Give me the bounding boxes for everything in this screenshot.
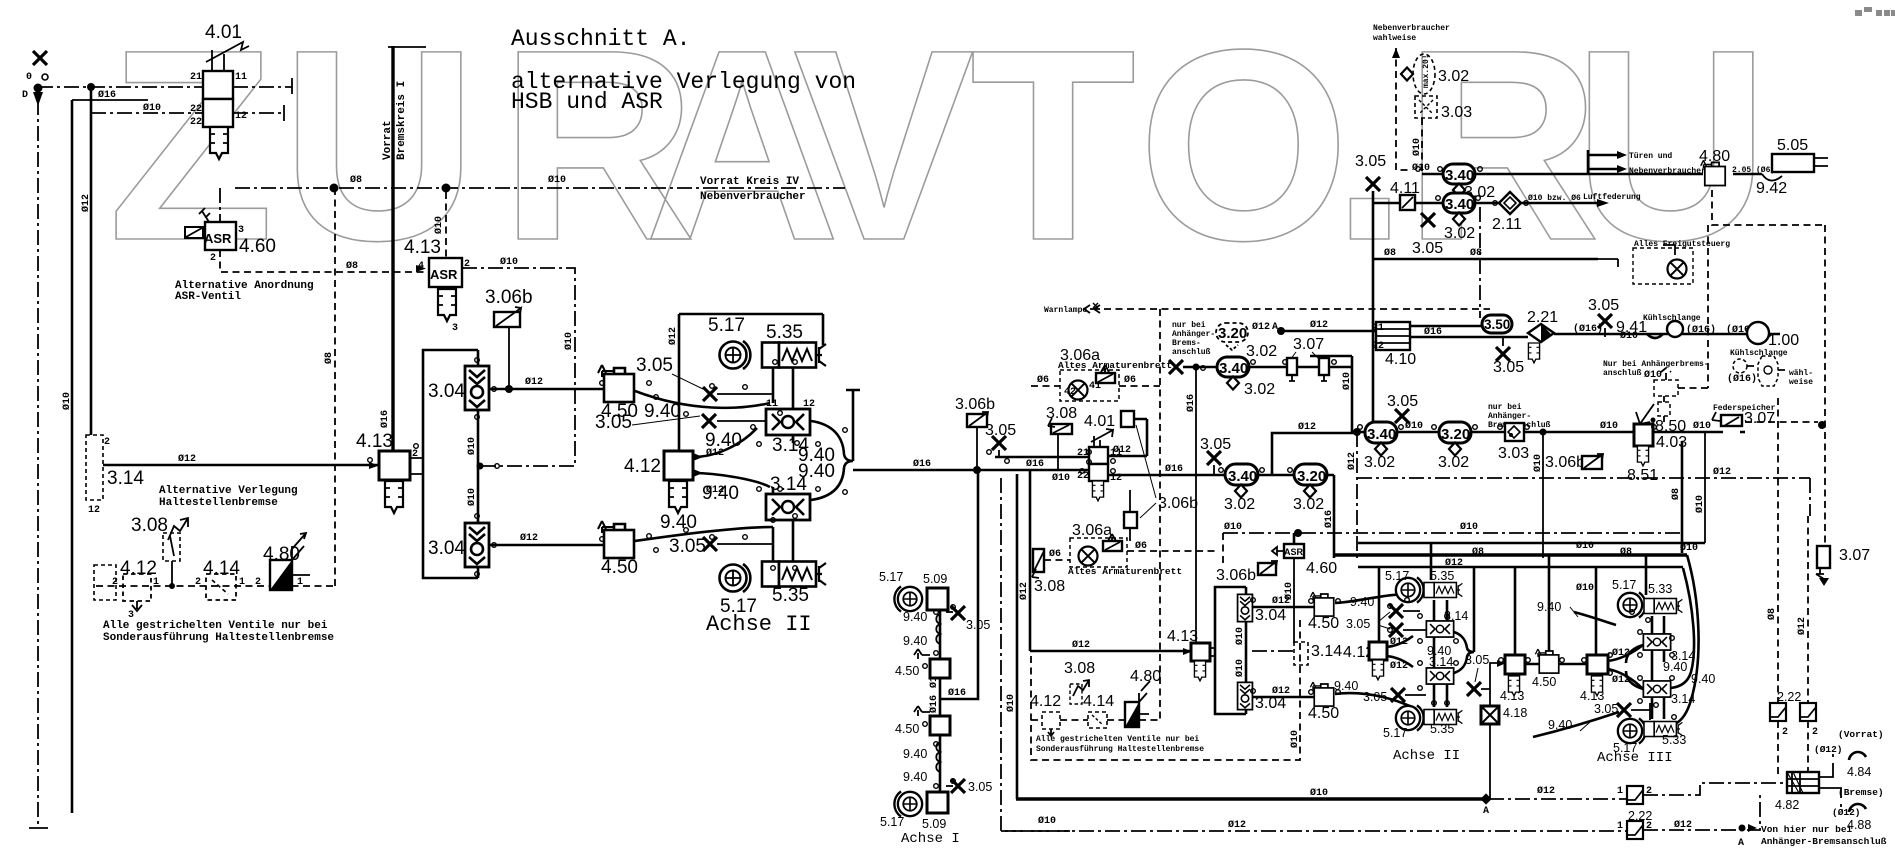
- hose curve 9.40 lower: [1335, 693, 1422, 712]
- svg-text:weise: weise: [1789, 378, 1813, 387]
- svg-text:9.40: 9.40: [903, 610, 927, 624]
- wire oval row y432: [1352, 431, 1505, 434]
- svg-text:5.35: 5.35: [766, 322, 803, 343]
- svg-text:Ø12: Ø12: [1796, 617, 1808, 635]
- valve 2.22 third: [1627, 786, 1643, 804]
- svg-text:Ø12: Ø12: [520, 532, 538, 544]
- connector 9.42: [1762, 174, 1782, 181]
- svg-text:9.40: 9.40: [1334, 679, 1358, 693]
- svg-text:Ø10: Ø10: [61, 392, 73, 410]
- brake chamber 5.17 bottom: [894, 791, 922, 816]
- wire main y456: [995, 456, 1089, 459]
- wires 4.82 to couplings: [1819, 754, 1841, 807]
- valve 3.04 lower: [465, 523, 489, 567]
- svg-text:3.07: 3.07: [1744, 410, 1775, 427]
- svg-text:nur bei: nur bei: [1172, 321, 1206, 330]
- wire cooling line: [1554, 333, 1780, 336]
- wire Vorrat Bremskreis I: [391, 46, 394, 451]
- valve 4.50 fifth: [1535, 649, 1558, 673]
- svg-text:5.35: 5.35: [1430, 569, 1454, 583]
- svg-text:2: 2: [210, 253, 216, 264]
- wires 4.12 ports to relays: [693, 428, 770, 487]
- svg-text:Ø12: Ø12: [1272, 595, 1290, 607]
- wire main y475 right: [1108, 474, 1334, 477]
- svg-text:anschluß: anschluß: [1603, 369, 1642, 378]
- svg-text:Achse II: Achse II: [706, 612, 812, 637]
- gauge 3.06b right: [1545, 454, 1603, 471]
- svg-text:5.35: 5.35: [772, 585, 809, 606]
- riser x1682: [1681, 441, 1684, 553]
- svg-text:Nur bei Anhängerbrems-: Nur bei Anhängerbrems-: [1603, 360, 1709, 369]
- svg-text:5.17: 5.17: [880, 815, 904, 829]
- svg-text:1: 1: [1617, 821, 1623, 832]
- wire main y470 Ø16: [853, 469, 1089, 472]
- muffler under 4.13: [438, 289, 456, 321]
- svg-text:U: U: [281, 0, 477, 297]
- oval 3.20 bottom pair: [1294, 464, 1327, 485]
- svg-text:4: 4: [418, 261, 424, 272]
- svg-text:3.05: 3.05: [1200, 436, 1231, 453]
- svg-text:9.40: 9.40: [1350, 595, 1374, 609]
- svg-text:4.60: 4.60: [1306, 560, 1337, 577]
- valve 3.14 dashed alternative: [86, 435, 110, 516]
- svg-text:2: 2: [255, 577, 261, 588]
- svg-text:Ø10: Ø10: [1005, 694, 1017, 712]
- valve holder dashed left: [94, 565, 116, 600]
- svg-text:9.40: 9.40: [702, 483, 739, 504]
- svg-text:Ø8: Ø8: [350, 174, 362, 186]
- svg-text:4.80: 4.80: [1699, 148, 1730, 165]
- svg-text:0: 0: [26, 72, 32, 83]
- svg-text:2.11: 2.11: [1492, 216, 1522, 233]
- wire dashed to 3.07 bottom: [1708, 190, 1825, 546]
- svg-text:9.40: 9.40: [903, 770, 927, 784]
- svg-text:Ø8: Ø8: [323, 352, 335, 364]
- wire dash-dot y831: [1001, 830, 1627, 832]
- valve 4.13 fourth: [1500, 655, 1525, 703]
- svg-text:Ø8: Ø8: [346, 260, 358, 272]
- relay 3.14 Achse III lower: [1643, 681, 1670, 697]
- test point X top-left: [26, 51, 48, 83]
- svg-text:3.07: 3.07: [1293, 336, 1324, 353]
- wire dashes to panel: [1031, 385, 1160, 387]
- wire dashed to far right: [1745, 421, 1818, 423]
- wire y331 to 4.10: [1281, 330, 1383, 333]
- svg-text:Ø12: Ø12: [1072, 639, 1090, 651]
- svg-text:3.02: 3.02: [1246, 343, 1277, 360]
- wire dash-dot link: [1252, 650, 1294, 652]
- svg-text:Ø10: Ø10: [1532, 454, 1544, 472]
- svg-text:Ø16: Ø16: [1165, 463, 1183, 475]
- dashed trailer valves group: [1620, 330, 1708, 422]
- svg-text:3.08: 3.08: [1064, 660, 1095, 677]
- svg-text:4.01: 4.01: [1084, 413, 1115, 430]
- wire oval upper line: [1422, 150, 1762, 174]
- svg-text:4.13: 4.13: [404, 237, 441, 258]
- svg-text:3.08: 3.08: [1034, 578, 1065, 595]
- wire Ø16 bend down: [1333, 475, 1336, 558]
- svg-text:Anhänger-: Anhänger-: [1488, 412, 1531, 421]
- svg-text:3.05: 3.05: [636, 355, 673, 376]
- svg-text:4.18: 4.18: [1503, 706, 1527, 720]
- svg-text:nur bei: nur bei: [1488, 403, 1522, 412]
- svg-text:Ø10: Ø10: [1694, 495, 1706, 513]
- svg-text:5.33: 5.33: [1648, 582, 1672, 596]
- diamond 3.02 upper: [1453, 184, 1465, 197]
- gauge 3.06b lower right: [1216, 561, 1277, 584]
- svg-text:Vorrat Kreis IV: Vorrat Kreis IV: [700, 176, 799, 188]
- svg-text:Ø6: Ø6: [1049, 548, 1061, 560]
- svg-text:Nebenverbraucher: Nebenverbraucher: [1373, 24, 1450, 33]
- svg-text:Ø10: Ø10: [1680, 542, 1698, 554]
- svg-text:Nebenverbraucher: Nebenverbraucher: [1629, 167, 1706, 176]
- valve 4.01 second: [1077, 413, 1122, 484]
- valve 4.03: [1634, 424, 1653, 446]
- svg-text:5.17: 5.17: [1612, 578, 1636, 592]
- svg-text:3.14: 3.14: [1311, 643, 1342, 660]
- node D: [22, 84, 43, 107]
- hose curve lower Achse III: [1533, 712, 1619, 737]
- svg-text:Ø10: Ø10: [1341, 372, 1353, 390]
- wire vertical Ø10 solid: [71, 100, 74, 813]
- svg-text:3.03: 3.03: [1441, 104, 1472, 121]
- valve 4.50 A2: [914, 706, 950, 735]
- wire x1017 long: [1016, 474, 1019, 799]
- valve 2.22 fourth: [1627, 821, 1643, 839]
- valve 3.04 fourth: [1238, 682, 1253, 709]
- svg-text:Ø12: Ø12: [1713, 466, 1731, 478]
- oval 3.20 right pair: [1439, 422, 1471, 443]
- valve 4.01 left: [190, 22, 249, 128]
- wire dash-dot Ø10 from 4.13 port2: [462, 268, 575, 466]
- svg-text:Ø10: Ø10: [500, 256, 518, 268]
- valve 4.18: [1481, 706, 1499, 724]
- svg-text:4.10: 4.10: [1385, 351, 1416, 368]
- svg-text:Ø10: Ø10: [1693, 420, 1711, 432]
- hose 9.40: [936, 614, 940, 644]
- muffler under 4.12: [669, 481, 687, 513]
- node junction: [505, 385, 513, 393]
- svg-text:9.40: 9.40: [903, 634, 927, 648]
- svg-text:12: 12: [235, 111, 247, 122]
- svg-text:3.14: 3.14: [107, 468, 144, 489]
- svg-text:2: 2: [104, 437, 110, 448]
- chain option dashed: [1030, 693, 1061, 736]
- svg-text:21: 21: [1372, 323, 1384, 334]
- svg-text:Ø10: Ø10: [433, 216, 445, 234]
- wire dashed warnlampe: [1104, 308, 1490, 310]
- brake chamber 5.17 lower: [720, 564, 751, 592]
- svg-text:Ø12: Ø12: [1390, 636, 1408, 648]
- valve 3.03 dashed: [1415, 96, 1437, 118]
- svg-text:3.05: 3.05: [595, 412, 632, 433]
- svg-text:Ø12: Ø12: [525, 376, 543, 388]
- wire main Ø12 line into 4.13: [103, 464, 379, 467]
- svg-text:(Ø12): (Ø12): [1814, 744, 1843, 755]
- text Von hier nur bei: [1739, 825, 1746, 832]
- valve 4.50 lower: [598, 521, 634, 558]
- wire dash-dot vertical left: [37, 100, 39, 828]
- svg-text:Ø12: Ø12: [1612, 674, 1630, 686]
- valve 3.08 handle: [131, 515, 188, 589]
- svg-text:3.05: 3.05: [968, 780, 992, 794]
- wire dash-dot 4.60 top: [219, 188, 221, 222]
- node dot: [477, 463, 484, 470]
- wire dash-dot A to 2.22: [1489, 798, 1627, 800]
- svg-text:1.00: 1.00: [1768, 332, 1799, 349]
- valve 3.07 bottom right: [1816, 546, 1830, 586]
- valve 4.50 third: [1310, 592, 1333, 616]
- svg-text:(Ø16): (Ø16): [1573, 323, 1603, 335]
- svg-text:Ø12: Ø12: [1390, 660, 1408, 672]
- brake chamber 5.17 Achse II top: [1396, 577, 1424, 602]
- svg-text:Ø12: Ø12: [1298, 421, 1316, 433]
- svg-text:Ø12: Ø12: [1445, 557, 1463, 569]
- wire dashed with up arrow: [1396, 48, 1412, 170]
- hose 9.40 lower: [936, 742, 940, 772]
- svg-text:21: 21: [190, 72, 202, 83]
- test point 3.05 third: [669, 536, 773, 557]
- svg-text:(Vorrat): (Vorrat): [1838, 729, 1884, 740]
- svg-text:4.50: 4.50: [1532, 675, 1556, 689]
- svg-text:Ø10: Ø10: [1460, 521, 1478, 533]
- svg-text:3.06b: 3.06b: [485, 287, 533, 308]
- svg-text:9.40: 9.40: [660, 512, 697, 533]
- hose 9.40 curve to Achse III: [1574, 612, 1616, 625]
- svg-text:Alternative Verlegung: Alternative Verlegung: [159, 485, 298, 497]
- warning lamp: [1044, 303, 1100, 315]
- svg-text:11: 11: [235, 72, 247, 83]
- svg-text:Vorrat: Vorrat: [382, 120, 394, 160]
- wire dashed chain: [1031, 719, 1160, 721]
- gauge 3.06b left: [955, 396, 995, 470]
- svg-text:3.05: 3.05: [1363, 690, 1387, 704]
- valve 2.11: [1499, 192, 1521, 214]
- valve 4.50 fourth: [1310, 682, 1333, 706]
- svg-text:5.17: 5.17: [708, 315, 745, 336]
- svg-text:Ø10: Ø10: [143, 102, 161, 114]
- svg-text:3.14: 3.14: [1671, 692, 1695, 706]
- svg-text:3.06b: 3.06b: [1158, 495, 1198, 512]
- svg-text:9.40: 9.40: [903, 747, 927, 761]
- svg-text:Ø16: Ø16: [379, 410, 391, 428]
- svg-text:3.40: 3.40: [1228, 468, 1257, 485]
- spring brake 5.33 top: [1644, 599, 1682, 614]
- test point 3.05 lower: [946, 785, 953, 787]
- svg-text:3.05: 3.05: [1346, 617, 1370, 631]
- wire dashed Ø10: [1421, 118, 1423, 172]
- riser x1705: [1704, 432, 1706, 543]
- svg-text:.: .: [1332, 0, 1408, 297]
- svg-text:4.12: 4.12: [624, 456, 661, 477]
- svg-text:3: 3: [238, 225, 244, 236]
- valve 4.12 dashed: [112, 558, 159, 621]
- wires 5.35 to 3.14: [773, 368, 793, 409]
- svg-text:3.08: 3.08: [131, 515, 168, 536]
- svg-text:4.12: 4.12: [1030, 693, 1061, 710]
- svg-text:4.50: 4.50: [601, 557, 638, 578]
- svg-text:3.02: 3.02: [1438, 454, 1469, 471]
- manifold frame second: [1215, 587, 1246, 714]
- svg-text:3.02: 3.02: [1438, 68, 1469, 85]
- svg-text:3.05: 3.05: [1355, 153, 1386, 170]
- node junction: [87, 83, 95, 91]
- valve 3.08 upper: [1046, 405, 1077, 470]
- svg-text:Ø16: Ø16: [1026, 458, 1044, 470]
- svg-text:Ø12: Ø12: [1228, 819, 1246, 831]
- valve 8.50: [1636, 404, 1656, 424]
- svg-text:22: 22: [1372, 341, 1384, 352]
- svg-text:Ø16: Ø16: [1185, 394, 1197, 412]
- svg-text:Ø12: Ø12: [80, 194, 92, 212]
- wire dashed 4.60 bottom loop: [220, 250, 424, 272]
- svg-text:3.20: 3.20: [1297, 468, 1326, 485]
- svg-text:Brems-: Brems-: [1172, 339, 1201, 348]
- wires 3.14 between: [773, 435, 793, 494]
- svg-text:A: A: [1483, 806, 1489, 817]
- svg-text:3.02: 3.02: [1293, 496, 1324, 513]
- coil option dashed: [1727, 349, 1813, 387]
- wire x1030: [1029, 470, 1032, 651]
- svg-text:4.50: 4.50: [895, 722, 919, 736]
- brake chamber 5.17 Achse III bottom: [1618, 718, 1646, 743]
- svg-text:42: 42: [1064, 387, 1076, 398]
- wire Ø12 from 3.04 lower to 4.50 lower: [489, 544, 604, 547]
- svg-text:U: U: [1573, 0, 1769, 297]
- oval 3.40 mid: [1217, 357, 1249, 377]
- panel 3.06a upper: [1058, 347, 1172, 401]
- wire x1352 branch: [1310, 356, 1352, 432]
- svg-text:Ø10: Ø10: [548, 174, 566, 186]
- wire dashed verticals trailer: [1777, 398, 1779, 774]
- spring brake 5.35 bottom: [1424, 710, 1462, 725]
- svg-text:4.50: 4.50: [895, 664, 919, 678]
- svg-text:4.80: 4.80: [1130, 668, 1161, 685]
- valve 3.03: [1505, 423, 1524, 441]
- valve 4.11: [1390, 180, 1420, 210]
- wire Ø12 from 3.04 to 4.50: [489, 388, 604, 391]
- svg-text:Von hier nur bei: Von hier nur bei: [1761, 824, 1853, 835]
- svg-text:3.40: 3.40: [1445, 196, 1474, 213]
- svg-text:3.40: 3.40: [1219, 360, 1248, 377]
- svg-text:9.42: 9.42: [1756, 180, 1787, 197]
- wire right vertical: [846, 390, 860, 461]
- wire branch x1272 up: [1272, 433, 1357, 475]
- svg-text:2: 2: [412, 449, 418, 460]
- test point 3.05 under oval: [1421, 213, 1435, 227]
- svg-text:2: 2: [1782, 727, 1788, 738]
- wires 3.14 lower to 5.35 lower: [773, 521, 793, 562]
- svg-text:4.14: 4.14: [203, 558, 240, 579]
- svg-text:3.06b: 3.06b: [1545, 454, 1585, 471]
- wire main line y203: [1373, 202, 1600, 205]
- svg-text:22: 22: [190, 104, 202, 115]
- dashed outer box: [1031, 620, 1300, 760]
- svg-text:5.17: 5.17: [1383, 726, 1407, 740]
- wire dash-dot x1001: [1001, 478, 1070, 831]
- wire dashed chain y586: [96, 585, 333, 587]
- valve 2.21: [1527, 309, 1558, 342]
- relay valve 3.14 lower: [766, 494, 810, 520]
- valve 3.04 upper: [465, 366, 489, 410]
- svg-text:Ø10: Ø10: [1411, 138, 1423, 156]
- svg-text:Alle gestrichelten Ventile nur: Alle gestrichelten Ventile nur bei: [103, 620, 328, 632]
- svg-text:wähl-: wähl-: [1789, 369, 1813, 378]
- dashed panel top right: [1598, 240, 1730, 284]
- svg-text:max.20!: max.20!: [1422, 54, 1431, 88]
- svg-text:Ø10: Ø10: [466, 437, 478, 455]
- valve 4.60 ASR alternative: [185, 208, 244, 264]
- svg-text:Ø12: Ø12: [1310, 319, 1328, 331]
- valve 5.09 top: [927, 588, 948, 610]
- wire y259 branch: [1373, 258, 1598, 261]
- svg-text:D: D: [22, 90, 28, 101]
- svg-text:Ø10: Ø10: [1576, 582, 1594, 594]
- svg-text:4.84: 4.84: [1847, 765, 1871, 779]
- pressure reservoir dashed max20: [1401, 54, 1435, 94]
- svg-text:Ø10 bzw. Ø6: Ø10 bzw. Ø6: [1528, 194, 1581, 203]
- valve 4.13 second: [356, 431, 423, 480]
- svg-text:Ø10: Ø10: [1310, 787, 1328, 799]
- svg-text:3.05: 3.05: [1387, 393, 1418, 410]
- valve 4.13 ASR: [404, 237, 470, 287]
- svg-text:(Ø16): (Ø16): [1727, 373, 1757, 385]
- svg-text:9.40: 9.40: [798, 461, 835, 482]
- svg-text:3.02: 3.02: [1444, 225, 1475, 242]
- node junction dots on supply: [330, 184, 339, 193]
- valve 5.05: [1772, 137, 1828, 172]
- svg-text:2.05 (Ø6): 2.05 (Ø6): [1732, 166, 1775, 175]
- heat exchanger 4.10: [1372, 322, 1410, 352]
- spring brake 5.35 upper: [762, 343, 826, 368]
- svg-text:ASR: ASR: [430, 267, 458, 282]
- oval 3.40 upper: [1443, 164, 1475, 184]
- svg-text:3.40: 3.40: [1445, 167, 1474, 184]
- wire main y432 right: [1524, 431, 1745, 434]
- svg-text:Luftfederung: Luftfederung: [1583, 193, 1641, 202]
- decor marks top right: [1855, 7, 1895, 16]
- svg-text:3.04: 3.04: [428, 381, 465, 402]
- svg-text:Ø10: Ø10: [1405, 420, 1423, 432]
- svg-text:Ø12: Ø12: [1272, 685, 1290, 697]
- spring brake 5.33 bottom: [1644, 722, 1682, 737]
- svg-text:Ø8: Ø8: [1470, 247, 1482, 259]
- wire riser x1196: [1195, 367, 1197, 643]
- svg-text:5.17: 5.17: [1385, 569, 1409, 583]
- valve 4.60 second ASR: [1272, 533, 1337, 643]
- svg-text:4.82: 4.82: [1775, 798, 1799, 812]
- wire dash x1223: [1222, 533, 1224, 565]
- svg-text:wahlweise: wahlweise: [1373, 34, 1416, 43]
- wires 5.35 to 3.14: [1434, 600, 1447, 621]
- svg-text:Ø16: Ø16: [98, 89, 116, 101]
- node tick: [283, 105, 285, 121]
- valve 3.07 pair: [1287, 336, 1329, 381]
- svg-text:Ø10: Ø10: [1289, 730, 1301, 748]
- oval 3.20 dashed trailer: [1216, 323, 1248, 350]
- brake chamber 5.17 upper: [720, 341, 751, 369]
- svg-text:2: 2: [195, 577, 201, 588]
- svg-text:Ø12: Ø12: [1612, 647, 1630, 659]
- port marks: [368, 167, 1677, 789]
- svg-text:2: 2: [112, 577, 118, 588]
- svg-text:8.50: 8.50: [1655, 418, 1686, 435]
- svg-text:Ø10: Ø10: [1038, 815, 1056, 827]
- wires 3.04 to 4.50: [1252, 607, 1314, 697]
- svg-text:3.06b: 3.06b: [1216, 567, 1256, 584]
- test point X lower: [1391, 688, 1405, 702]
- svg-text:5.09: 5.09: [922, 817, 946, 831]
